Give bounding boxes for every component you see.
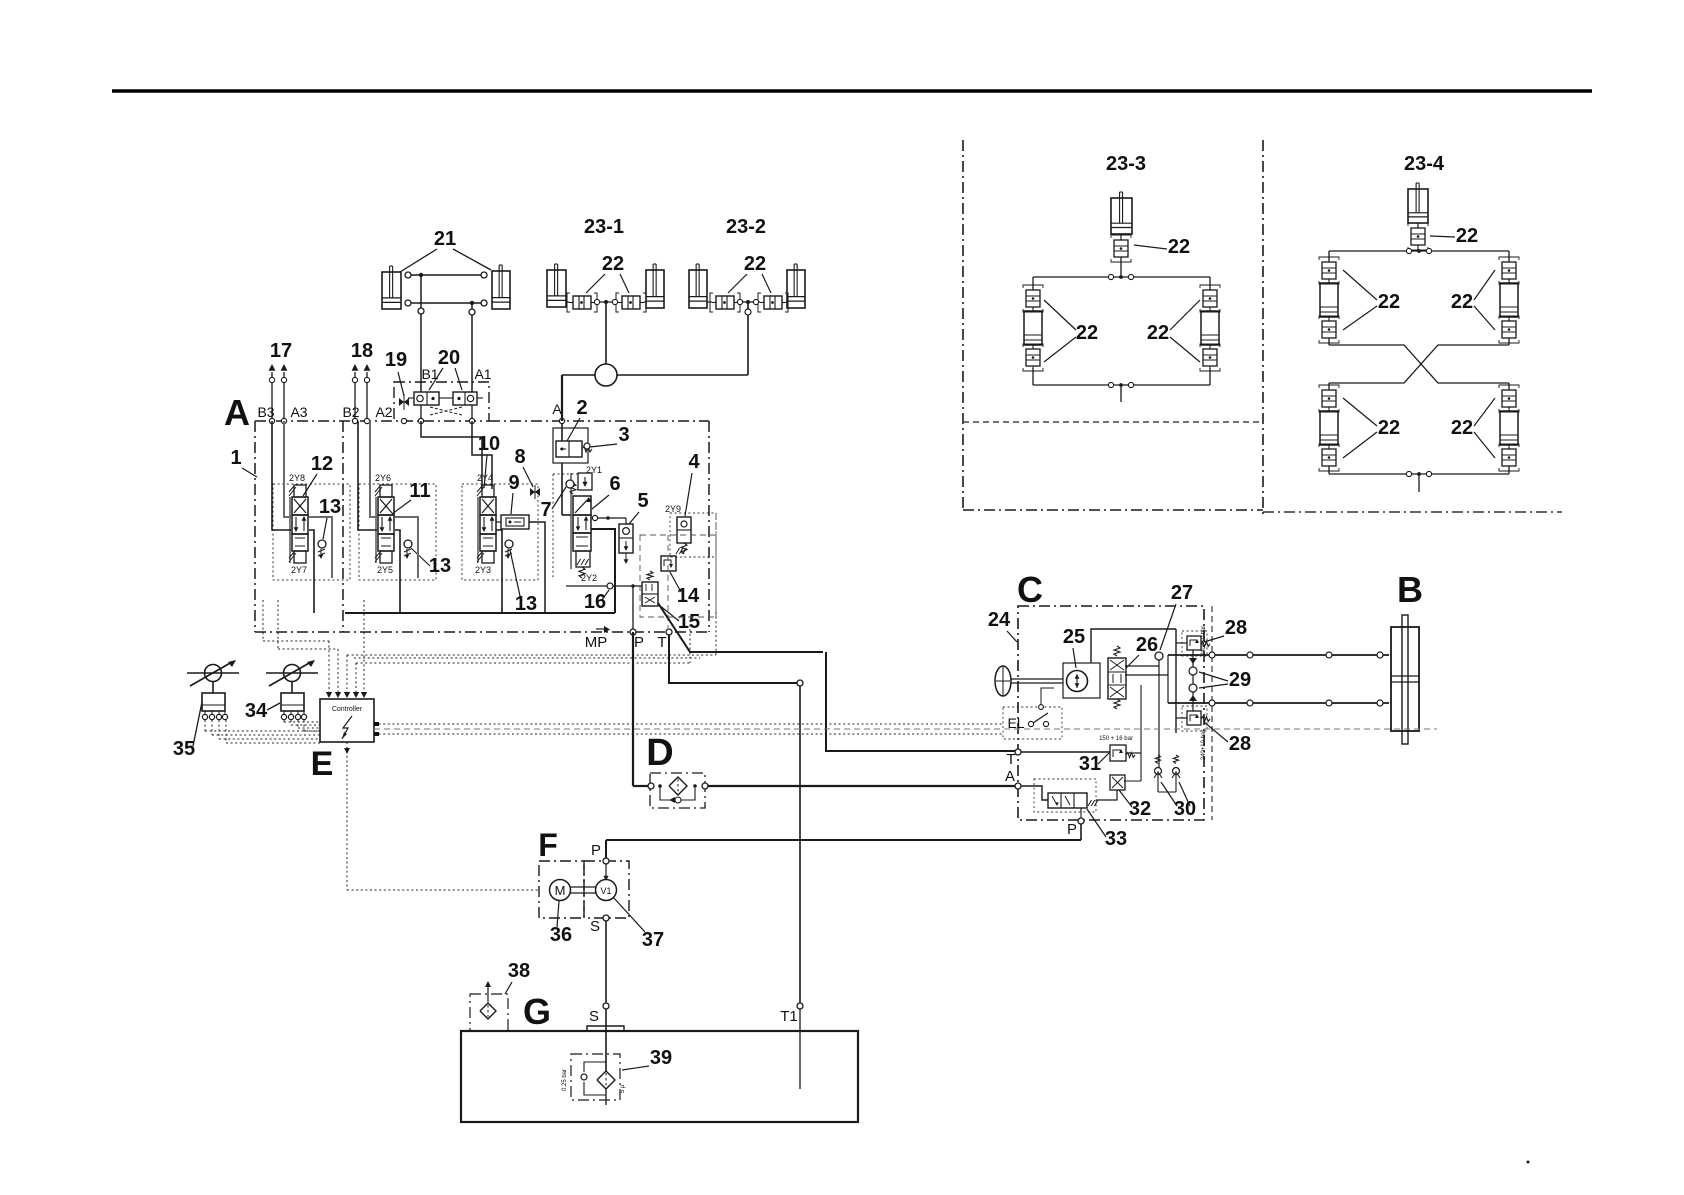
svg-text:C: C: [1017, 569, 1043, 610]
svg-text:13: 13: [515, 593, 537, 615]
svg-text:30: 30: [1174, 798, 1196, 820]
svg-text:B2: B2: [342, 404, 359, 420]
svg-text:19: 19: [385, 349, 407, 371]
svg-text:28: 28: [1229, 733, 1251, 755]
svg-text:S: S: [589, 1008, 599, 1025]
svg-text:M: M: [555, 883, 566, 898]
svg-text:3: 3: [618, 424, 629, 446]
svg-text:P: P: [1067, 821, 1077, 838]
svg-text:29: 29: [1229, 669, 1251, 691]
svg-text:E: E: [311, 745, 334, 783]
svg-text:13: 13: [319, 496, 341, 518]
svg-text:B: B: [1397, 569, 1423, 610]
svg-text:5 µ: 5 µ: [620, 1084, 626, 1093]
svg-text:7: 7: [540, 499, 551, 521]
svg-text:P: P: [591, 842, 601, 859]
svg-text:22: 22: [1147, 322, 1169, 344]
svg-text:21: 21: [434, 228, 456, 250]
svg-text:2Y7: 2Y7: [291, 565, 307, 575]
svg-text:22: 22: [744, 253, 766, 275]
svg-text:4: 4: [688, 451, 700, 473]
svg-text:23-1: 23-1: [584, 216, 624, 238]
svg-text:12: 12: [311, 453, 333, 475]
svg-text:13: 13: [429, 555, 451, 577]
svg-text:240+10 bar: 240+10 bar: [1201, 626, 1207, 657]
svg-text:24: 24: [988, 609, 1011, 631]
svg-text:33: 33: [1105, 828, 1127, 850]
svg-text:18: 18: [351, 340, 373, 362]
svg-text:2: 2: [576, 397, 587, 419]
svg-text:22: 22: [1168, 236, 1190, 258]
svg-text:16: 16: [584, 591, 606, 613]
svg-text:28: 28: [1225, 617, 1247, 639]
svg-text:T1: T1: [780, 1008, 798, 1025]
svg-text:22: 22: [1378, 291, 1400, 313]
svg-text:2Y6: 2Y6: [375, 473, 391, 483]
svg-text:27: 27: [1171, 582, 1193, 604]
svg-text:2Y9: 2Y9: [665, 504, 681, 514]
svg-text:2Y8: 2Y8: [289, 473, 305, 483]
svg-text:32: 32: [1129, 798, 1151, 820]
svg-text:MP: MP: [585, 634, 608, 651]
svg-text:23-4: 23-4: [1404, 153, 1445, 175]
svg-text:1: 1: [230, 447, 241, 469]
svg-text:22: 22: [1456, 225, 1478, 247]
svg-text:36: 36: [550, 924, 572, 946]
svg-text:35: 35: [173, 738, 195, 760]
svg-text:2Y5: 2Y5: [377, 565, 393, 575]
svg-text:A3: A3: [290, 404, 307, 420]
svg-text:A1: A1: [474, 366, 491, 382]
svg-text:6: 6: [609, 473, 620, 495]
svg-text:20: 20: [438, 347, 460, 369]
svg-text:11: 11: [409, 480, 430, 502]
svg-text:A2: A2: [375, 404, 392, 420]
svg-text:8: 8: [514, 446, 525, 468]
svg-text:2Y2: 2Y2: [581, 573, 597, 583]
svg-text:150 + 16 bar: 150 + 16 bar: [1099, 736, 1133, 742]
svg-text:23-3: 23-3: [1106, 153, 1146, 175]
svg-text:A: A: [1005, 768, 1015, 785]
svg-text:22: 22: [1451, 417, 1473, 439]
svg-text:25: 25: [1063, 626, 1085, 648]
svg-text:0.25 bar: 0.25 bar: [562, 1069, 568, 1091]
svg-text:240+10 bar: 240+10 bar: [1201, 730, 1207, 761]
svg-text:38: 38: [508, 960, 530, 982]
svg-text:D: D: [646, 732, 673, 774]
svg-text:T: T: [1006, 751, 1015, 768]
svg-text:39: 39: [650, 1047, 672, 1069]
svg-text:22: 22: [1451, 291, 1473, 313]
svg-text:B3: B3: [257, 404, 274, 420]
svg-text:31: 31: [1079, 753, 1101, 775]
svg-text:G: G: [523, 991, 551, 1032]
svg-text:26: 26: [1136, 634, 1158, 656]
svg-text:9: 9: [508, 472, 519, 494]
svg-text:F: F: [538, 827, 558, 863]
svg-text:V1: V1: [600, 886, 611, 896]
svg-text:34: 34: [245, 700, 268, 722]
svg-text:A: A: [552, 401, 562, 417]
svg-text:15: 15: [678, 611, 700, 633]
svg-text:17: 17: [270, 340, 292, 362]
svg-text:22: 22: [1076, 322, 1098, 344]
svg-text:T: T: [657, 634, 666, 651]
svg-text:S: S: [590, 918, 600, 935]
svg-text:Controller: Controller: [332, 706, 363, 713]
svg-text:23-2: 23-2: [726, 216, 766, 238]
svg-text:A: A: [224, 392, 250, 433]
svg-text:22: 22: [1378, 417, 1400, 439]
svg-text:P: P: [634, 634, 644, 651]
svg-text:22: 22: [602, 253, 624, 275]
svg-text:B1: B1: [421, 366, 438, 382]
svg-text:37: 37: [642, 929, 664, 951]
svg-text:2Y3: 2Y3: [475, 565, 491, 575]
svg-text:14: 14: [677, 585, 700, 607]
svg-text:5: 5: [637, 490, 648, 512]
